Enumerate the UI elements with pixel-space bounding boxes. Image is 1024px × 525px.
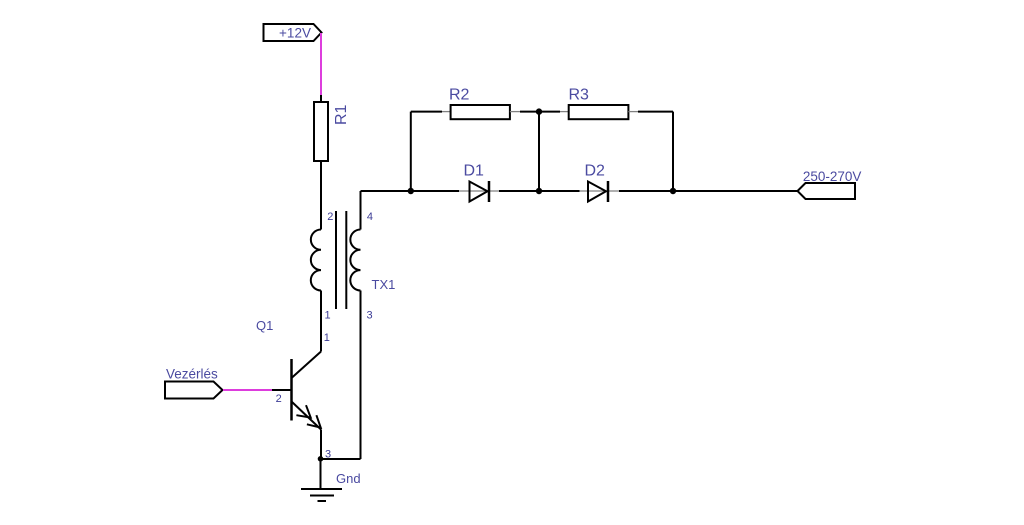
base bar [290, 359, 293, 421]
node R2/R3 top [536, 108, 542, 114]
resistor R2 [449, 87, 510, 120]
svg-text:2: 2 [276, 393, 282, 405]
node emitter/gnd junction [318, 456, 324, 462]
svg-text:D2: D2 [585, 163, 606, 180]
wire main bus [361, 190, 460, 192]
ground [301, 471, 361, 501]
wire junction to TX1 pin3 [321, 458, 361, 460]
wire right vertical [672, 112, 674, 191]
wire R2 right to node [520, 111, 539, 113]
wire TX1 pin1 to Q1 collector [320, 291, 322, 352]
port +12V [264, 24, 322, 41]
diode D2 [585, 163, 609, 203]
base pin [272, 389, 291, 391]
transistor Q1 [256, 318, 331, 461]
core line 2 [345, 211, 347, 309]
pin R3 right [628, 111, 638, 113]
wire D1 to node B [499, 190, 580, 192]
resistor R1 [314, 102, 350, 161]
svg-text:Vezérlés: Vezérlés [166, 367, 218, 382]
emitter diagonal [292, 402, 322, 430]
wire node to R3 left [539, 111, 560, 113]
svg-text:TX1: TX1 [372, 277, 396, 292]
wire TX1 pin3 down [360, 291, 362, 460]
wire R1 top pin [320, 95, 322, 102]
core line 1 [335, 211, 337, 309]
wire magenta Vezérlés to Q1 base [223, 389, 272, 391]
emitter arrow chevron 1 [296, 405, 310, 417]
wire R3 right to corner [638, 111, 673, 113]
svg-text:R3: R3 [569, 87, 590, 104]
svg-text:1: 1 [324, 332, 330, 344]
collector diagonal [292, 352, 322, 379]
wire R2 loop left vertical [410, 112, 412, 191]
pin R2 left [442, 111, 451, 113]
node bus right [670, 188, 676, 194]
transformer TX1 [311, 211, 396, 322]
port 250-270V [798, 169, 862, 199]
pin D1 anode [459, 190, 499, 192]
svg-text:R1: R1 [333, 104, 350, 125]
resistor R3 [569, 87, 629, 120]
svg-text:4: 4 [367, 211, 373, 223]
port Vezérlés [165, 367, 223, 399]
svg-text:2: 2 [327, 211, 333, 223]
svg-text:+12V: +12V [279, 26, 311, 41]
wire R1 bottom to TX1 pin 2 [320, 161, 322, 230]
primary winding arcs [311, 230, 321, 291]
emitter vertical [320, 430, 322, 460]
wire to R2 left [411, 111, 442, 113]
pin R2 right [510, 111, 520, 113]
svg-text:250-270V: 250-270V [803, 169, 862, 184]
wire magenta +12V to R1 [320, 33, 322, 95]
pin R3 left [560, 111, 569, 113]
svg-text:1: 1 [325, 310, 331, 322]
svg-text:Q1: Q1 [256, 318, 273, 333]
svg-text:3: 3 [367, 310, 373, 322]
node bus left [408, 188, 414, 194]
svg-text:D1: D1 [464, 163, 485, 180]
svg-text:R2: R2 [449, 87, 470, 104]
node bus middle [536, 188, 542, 194]
secondary winding arcs [350, 230, 360, 291]
diode D1 [464, 163, 490, 203]
emitter arrow chevron 2 [307, 415, 321, 427]
wire middle vertical [538, 112, 540, 191]
svg-text:Gnd: Gnd [336, 471, 361, 486]
wire D2 to port [619, 190, 798, 192]
wire junction to ground [320, 459, 322, 489]
wire TX1 pin4 up to bus [360, 191, 362, 230]
pin D2 anode [580, 190, 620, 192]
